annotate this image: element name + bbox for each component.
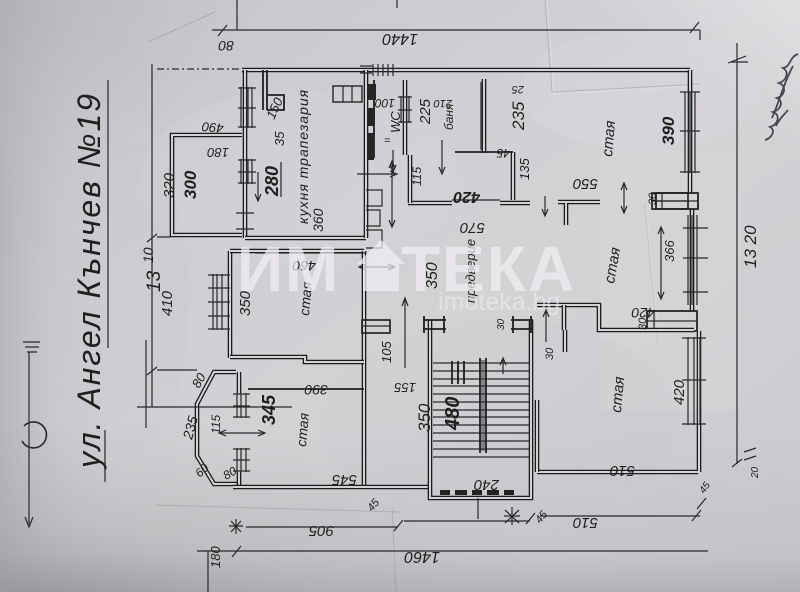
svg-text:=: = (384, 135, 391, 147)
svg-text:180: 180 (208, 546, 223, 568)
svg-text:180: 180 (207, 145, 229, 160)
svg-text:35: 35 (272, 131, 287, 146)
svg-text:105: 105 (379, 341, 394, 363)
svg-text:кухня трапезария: кухня трапезария (295, 89, 311, 224)
svg-text:стая: стая (293, 412, 312, 448)
svg-text:10: 10 (140, 247, 156, 263)
svg-text:235: 235 (509, 101, 528, 131)
svg-text:стая: стая (608, 376, 628, 414)
svg-text:1460: 1460 (404, 548, 440, 565)
svg-text:420: 420 (453, 188, 481, 205)
svg-text:80: 80 (218, 38, 234, 54)
svg-text:30: 30 (637, 317, 649, 330)
svg-text:410: 410 (159, 290, 176, 316)
svg-text:545: 545 (331, 471, 357, 488)
svg-text:ИМ: ИМ (237, 233, 340, 305)
svg-text:510: 510 (609, 462, 635, 479)
svg-text:100: 100 (375, 96, 395, 110)
svg-text:905: 905 (308, 522, 334, 539)
svg-text:240: 240 (473, 476, 500, 493)
svg-text:390: 390 (304, 382, 328, 398)
svg-text:490: 490 (201, 119, 225, 136)
svg-text:300: 300 (181, 170, 200, 199)
svg-text:225: 225 (417, 98, 434, 125)
svg-text:30: 30 (647, 192, 659, 205)
svg-text:45: 45 (496, 146, 510, 160)
svg-text:135: 135 (517, 158, 532, 180)
svg-text:WC: WC (388, 111, 403, 133)
svg-text:155: 155 (394, 380, 416, 395)
svg-text:imoteka.bg: imoteka.bg (438, 288, 560, 316)
svg-text:510: 510 (572, 514, 598, 531)
svg-text:25: 25 (511, 83, 525, 95)
svg-text:13: 13 (144, 270, 165, 292)
svg-text:13 20: 13 20 (741, 225, 760, 268)
svg-text:стая: стая (599, 120, 619, 158)
svg-text:280: 280 (262, 166, 282, 197)
svg-text:350: 350 (415, 403, 434, 432)
svg-text:480: 480 (442, 397, 464, 431)
svg-text:20: 20 (750, 466, 761, 479)
svg-text:ул. Ангел Кънчев №19: ул. Ангел Кънчев №19 (71, 92, 107, 470)
svg-text:420: 420 (671, 379, 688, 405)
svg-text:30: 30 (544, 347, 556, 360)
svg-text:360: 360 (310, 208, 326, 232)
svg-text:390: 390 (659, 116, 678, 145)
svg-text:30: 30 (496, 318, 507, 330)
svg-text:баня: баня (442, 103, 456, 130)
svg-text:115: 115 (410, 167, 424, 186)
svg-text:320: 320 (161, 172, 178, 198)
svg-text:1440: 1440 (382, 30, 418, 47)
svg-text:366: 366 (662, 240, 677, 262)
svg-text:115: 115 (209, 415, 223, 434)
svg-text:550: 550 (572, 175, 598, 192)
svg-text:345: 345 (259, 394, 279, 425)
